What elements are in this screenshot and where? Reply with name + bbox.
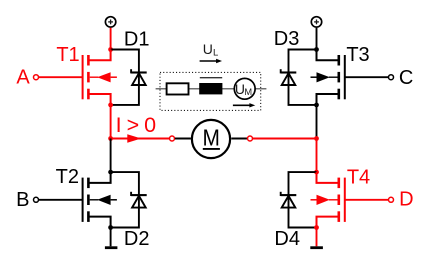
- wire supply-right to node: [316, 28, 318, 50]
- wire gate lead C: [345, 76, 388, 78]
- diode D4: [281, 192, 297, 208]
- svg-text:I>0: I>0: [116, 113, 162, 137]
- wire motor lead right: [231, 138, 247, 140]
- node mid-right junction: [314, 136, 319, 141]
- wire supply-left to node: [110, 28, 112, 50]
- wire to ground right: [316, 228, 318, 247]
- node T4 drain junction: [314, 170, 319, 175]
- resistor R armature: [167, 83, 189, 94]
- svg-text:D: D: [399, 189, 413, 211]
- svg-text:D2: D2: [124, 228, 150, 250]
- terminal B: [34, 197, 39, 202]
- arrow U_L direction: [200, 59, 222, 63]
- svg-text:M: M: [202, 125, 219, 151]
- motor M: [192, 120, 230, 158]
- wire rail right lower-mid: [316, 139, 318, 173]
- source U_M: [234, 78, 255, 99]
- svg-text:C: C: [399, 67, 413, 89]
- svg-text:D4: D4: [274, 228, 300, 250]
- svg-text:T4: T4: [347, 167, 370, 189]
- wire mid-left to motor: [111, 138, 170, 140]
- node T3 drain junction: [314, 47, 319, 52]
- terminal A: [34, 75, 39, 80]
- svg-text:T1: T1: [56, 44, 79, 66]
- svg-text:U: U: [203, 41, 213, 57]
- wire D4 branch: [289, 172, 317, 227]
- terminal C: [389, 75, 394, 80]
- wire D3 branch: [289, 50, 317, 105]
- terminal D: [389, 197, 394, 202]
- arrow U_M direction: [233, 103, 255, 107]
- wire motor to mid-right: [253, 138, 317, 140]
- motor terminal left: [170, 136, 175, 141]
- diode D2: [131, 192, 147, 208]
- node T1 drain junction: [108, 47, 113, 52]
- svg-text:M: M: [244, 87, 252, 97]
- wire to ground left: [110, 228, 112, 247]
- svg-text:L: L: [213, 48, 218, 59]
- supply terminal plus-circle left: [105, 17, 115, 27]
- transistor T2: [83, 172, 117, 227]
- wire inset gray lead: [156, 88, 267, 90]
- node T3 source junction: [314, 103, 319, 108]
- wire rail right upper-mid: [316, 105, 318, 139]
- supply terminal plus-circle right: [311, 17, 321, 27]
- node T4 source junction: [314, 225, 319, 230]
- wire gate lead A: [39, 76, 83, 78]
- svg-text:B: B: [16, 189, 29, 211]
- diode D1: [131, 69, 147, 85]
- wire motor lead left: [175, 138, 191, 140]
- diode D3: [281, 69, 297, 85]
- wire rail left lower-mid: [110, 139, 112, 173]
- ground right: [310, 246, 323, 249]
- node T2 source junction: [108, 225, 113, 230]
- inductor L armature: [199, 78, 222, 95]
- wire D1 branch: [111, 50, 139, 105]
- wire gate lead D: [345, 199, 388, 201]
- ground left: [105, 246, 118, 249]
- svg-text:D3: D3: [274, 28, 300, 50]
- node T2 drain junction: [108, 170, 113, 175]
- node T1 source junction: [108, 103, 113, 108]
- svg-text:A: A: [16, 67, 30, 89]
- node mid-left junction: [108, 136, 113, 141]
- motor terminal right: [248, 136, 253, 141]
- svg-text:D1: D1: [124, 28, 150, 50]
- transistor T3: [311, 50, 345, 105]
- svg-text:T2: T2: [56, 166, 79, 188]
- current direction arrow: [127, 134, 141, 142]
- wire rail left upper-mid: [110, 105, 112, 139]
- transistor T1: [83, 50, 117, 105]
- transistor T4: [311, 172, 345, 227]
- svg-text:T3: T3: [346, 44, 369, 66]
- wire gate lead B: [39, 199, 83, 201]
- wire D2 branch: [111, 172, 139, 227]
- equivalent circuit inset box: [160, 72, 261, 110]
- label U_L: [203, 41, 219, 59]
